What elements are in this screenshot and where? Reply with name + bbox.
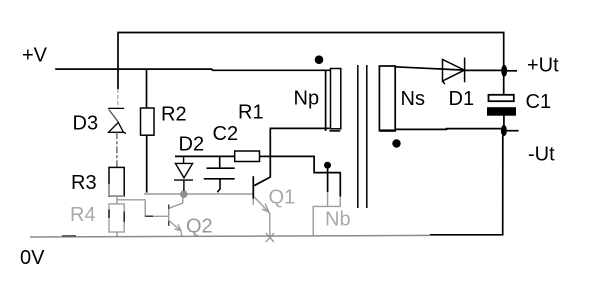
svg-text:R4: R4 [70, 204, 96, 226]
wire R3/R4 junction to Q2 base [117, 200, 168, 217]
svg-text:Np: Np [294, 88, 320, 110]
svg-text:+V: +V [22, 45, 48, 67]
svg-text:Q2: Q2 [186, 216, 213, 238]
node Nb phase dot [324, 162, 331, 169]
wire Ns top to D1 [395, 67, 465, 70]
wire -Ut node down to 0V rail [430, 136, 503, 235]
diode D2 [174, 156, 193, 191]
capacitor C2 [204, 156, 235, 192]
resistor R3 [109, 167, 124, 196]
wire Ns bottom to -Ut node [395, 128, 501, 131]
transformer core [358, 65, 367, 208]
node junction dot (gray) [180, 190, 188, 198]
svg-text:Q1: Q1 [269, 187, 296, 209]
wire junction up to Np bottom [270, 128, 329, 156]
svg-text:D1: D1 [449, 88, 475, 110]
resistor R4 (gray) [109, 204, 124, 232]
resistor R2 [141, 108, 155, 135]
winding Nb [328, 173, 341, 197]
node Np phase dot [315, 55, 324, 64]
diode D1 [443, 58, 465, 85]
winding Np [331, 69, 341, 129]
node +V rail [55, 69, 331, 70]
node -Ut junction [501, 125, 507, 136]
winding Ns [379, 66, 395, 131]
svg-text:C2: C2 [213, 123, 239, 145]
wire top loop from left vertical to +Ut node [118, 33, 504, 95]
svg-text:R3: R3 [71, 172, 97, 194]
wire R3 to R4 junction [116, 196, 118, 204]
svg-text:D2: D2 [179, 134, 205, 156]
capacitor C1 bottom plate [488, 108, 516, 116]
wire D3 to R3 (mottled) [116, 132, 118, 167]
wire R4 to 0V rail [116, 232, 118, 236]
transistor Q2 (gray) [169, 194, 183, 236]
svg-text:C1: C1 [526, 91, 552, 113]
wire junction to Nb top [270, 156, 341, 172]
svg-text:+Ut: +Ut [527, 55, 559, 77]
wire R2 top stem [146, 69, 148, 108]
zener diode D3 [108, 108, 126, 133]
wire Nb bottom to 0V rail (gray) [313, 206, 341, 236]
wire gray net (R2/D2/C2 to Q1 base) [144, 193, 253, 195]
svg-text:R2: R2 [161, 104, 187, 126]
wire C1 to -Ut node [503, 115, 505, 125]
wire R1 right to collector junction [260, 155, 271, 157]
transistor Q1 [253, 156, 274, 242]
node +Ut junction [501, 65, 507, 77]
wire D2/C2/R1 top net [175, 155, 235, 157]
svg-text:R1: R1 [238, 102, 264, 124]
resistor R1 [235, 151, 260, 162]
svg-text:Ns: Ns [401, 88, 425, 110]
svg-text:Nb: Nb [325, 209, 351, 231]
svg-text:D3: D3 [73, 113, 99, 135]
wire rail to D3 (faded) [117, 89, 119, 108]
svg-text:0V: 0V [20, 247, 45, 269]
wire D1 to +Ut node [465, 69, 502, 71]
node 0V rail (gray) [30, 235, 430, 237]
capacitor C1 top plate [489, 95, 514, 101]
wire R2 bottom to gray net [146, 135, 148, 192]
node Ns phase dot [392, 139, 400, 147]
svg-text:-Ut: -Ut [528, 144, 555, 166]
